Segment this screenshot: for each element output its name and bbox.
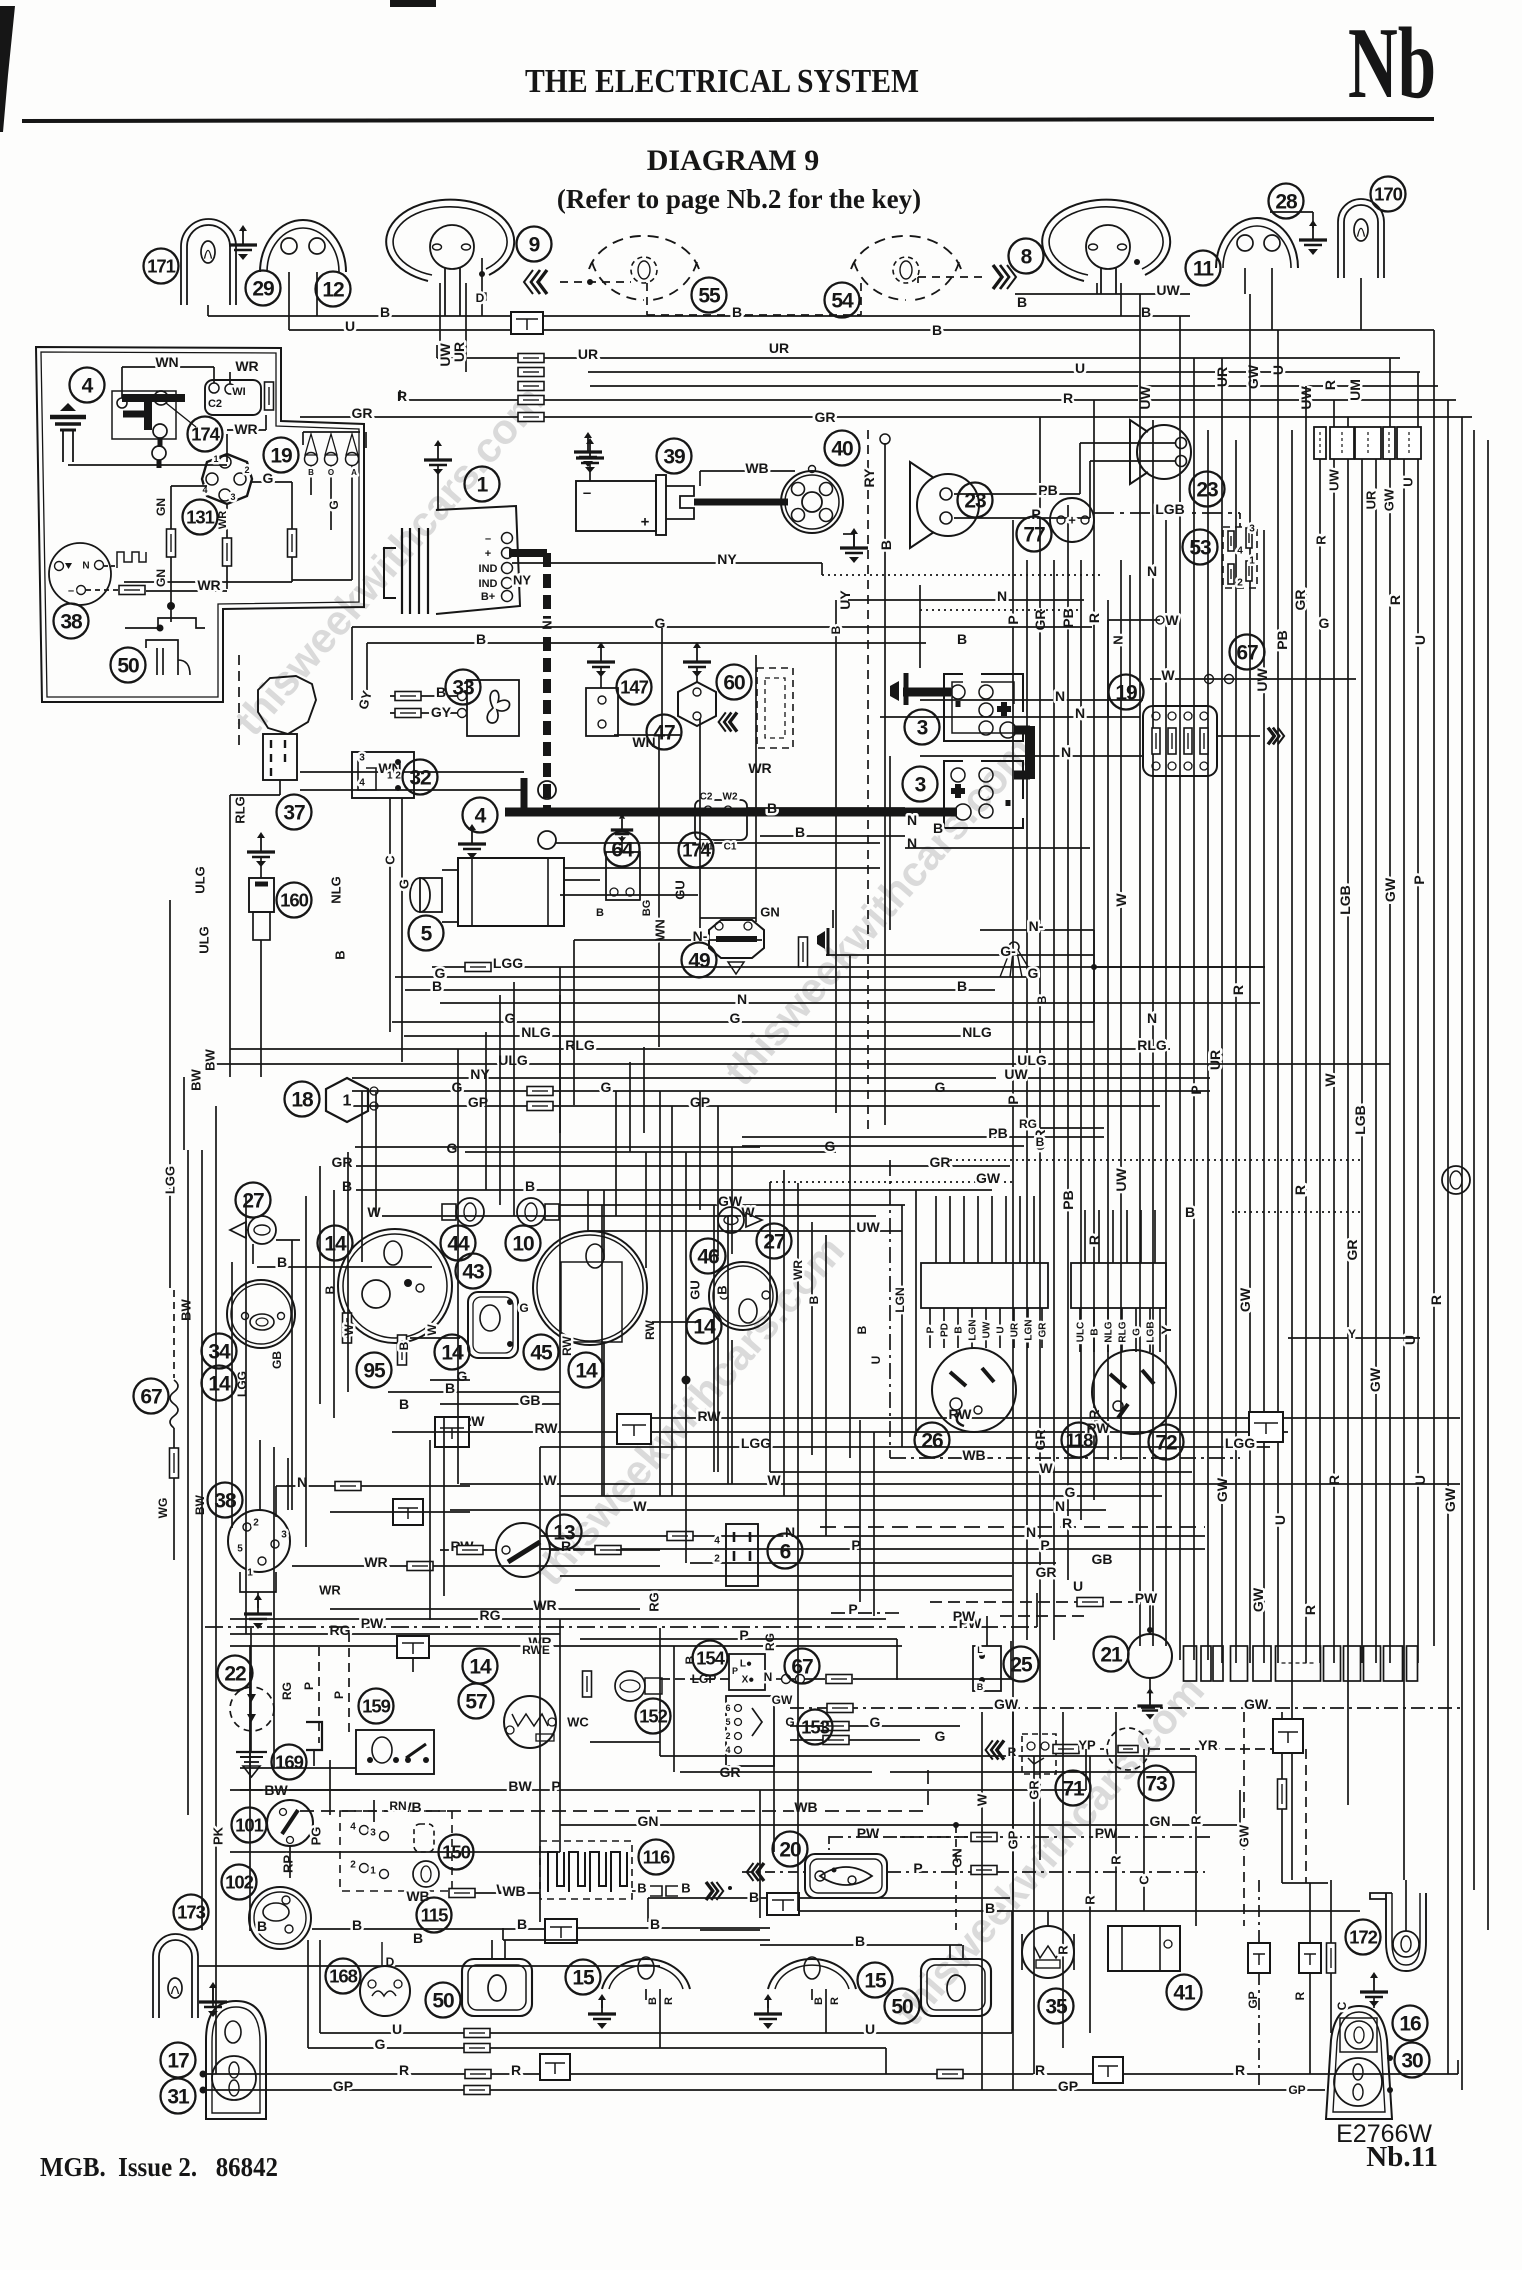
svg-text:118: 118 xyxy=(1066,1430,1094,1451)
svg-text:14: 14 xyxy=(693,1316,716,1339)
svg-text:67: 67 xyxy=(140,1386,162,1409)
svg-text:RWE: RWE xyxy=(522,1643,550,1657)
svg-text:N: N xyxy=(82,561,89,572)
svg-text:GW: GW xyxy=(1250,1587,1266,1612)
svg-text:WR: WR xyxy=(234,421,257,437)
svg-text:WB: WB xyxy=(502,1883,525,1899)
svg-text:153: 153 xyxy=(801,1717,830,1738)
svg-text:ULG: ULG xyxy=(193,866,208,893)
svg-text:2: 2 xyxy=(244,465,249,475)
svg-text:B: B xyxy=(957,631,967,647)
svg-text:G: G xyxy=(601,1079,612,1095)
svg-text:6: 6 xyxy=(725,1703,730,1713)
svg-text:GB: GB xyxy=(270,1351,284,1369)
svg-text:N: N xyxy=(785,1524,795,1540)
svg-text:11: 11 xyxy=(1193,258,1215,281)
svg-text:LGN: LGN xyxy=(968,1319,979,1340)
svg-text:R: R xyxy=(1293,1991,1307,2000)
svg-text:UM: UM xyxy=(1347,379,1363,401)
svg-text:LGG: LGG xyxy=(1225,1435,1255,1451)
svg-text:GW: GW xyxy=(1237,1287,1253,1312)
svg-text:38: 38 xyxy=(60,611,83,634)
svg-text:B: B xyxy=(413,1930,423,1946)
svg-text:WR: WR xyxy=(791,1260,805,1280)
svg-text:GR: GR xyxy=(1038,1322,1049,1338)
svg-text:P: P xyxy=(302,1682,316,1690)
svg-text:54: 54 xyxy=(831,290,854,313)
svg-text:B: B xyxy=(257,1918,267,1934)
svg-text:171: 171 xyxy=(147,256,176,277)
svg-text:41: 41 xyxy=(1173,1982,1196,2005)
svg-text:R: R xyxy=(663,1997,675,2005)
svg-text:N-: N- xyxy=(1029,918,1044,934)
svg-text:G: G xyxy=(935,1079,946,1095)
svg-text:B: B xyxy=(813,1997,825,2005)
svg-text:B: B xyxy=(352,1917,362,1933)
svg-text:3: 3 xyxy=(359,753,365,764)
svg-text:GW: GW xyxy=(994,1696,1019,1712)
svg-text:U: U xyxy=(1073,1578,1083,1594)
svg-text:102: 102 xyxy=(225,1872,254,1893)
svg-text:67: 67 xyxy=(1236,642,1258,665)
svg-text:150: 150 xyxy=(442,1842,471,1863)
svg-text:20: 20 xyxy=(779,1839,801,1862)
svg-text:55: 55 xyxy=(698,285,721,308)
svg-text:PB: PB xyxy=(1038,482,1057,498)
svg-text:A: A xyxy=(351,468,357,477)
svg-text:GW: GW xyxy=(1245,364,1261,389)
svg-text:U: U xyxy=(345,318,355,334)
svg-text:172: 172 xyxy=(1349,1927,1378,1948)
svg-text:LGG: LGG xyxy=(741,1435,771,1451)
svg-text:U: U xyxy=(1402,1335,1418,1345)
svg-text:DIAGRAM 9: DIAGRAM 9 xyxy=(647,144,820,177)
svg-text:PW: PW xyxy=(1135,1590,1158,1606)
svg-text:27: 27 xyxy=(242,1190,264,1213)
svg-text:23: 23 xyxy=(964,490,986,513)
svg-text:GW: GW xyxy=(1237,1824,1252,1847)
svg-text:UR: UR xyxy=(578,346,598,362)
svg-text:R: R xyxy=(1056,1945,1071,1955)
svg-text:30: 30 xyxy=(1401,2050,1423,2073)
svg-text:60: 60 xyxy=(723,672,745,695)
svg-text:RG: RG xyxy=(280,1682,294,1700)
svg-text:P: P xyxy=(913,1860,922,1876)
svg-text:Y: Y xyxy=(1348,1327,1356,1341)
svg-text:G: G xyxy=(730,1010,741,1026)
svg-text:P: P xyxy=(1411,875,1427,884)
svg-text:G: G xyxy=(327,500,341,509)
svg-text:B: B xyxy=(525,1178,535,1194)
svg-text:35: 35 xyxy=(1045,1996,1068,2019)
svg-text:32: 32 xyxy=(409,767,431,790)
svg-text:B: B xyxy=(445,1380,455,1396)
svg-text:B: B xyxy=(647,1997,659,2005)
svg-text:PG: PG xyxy=(309,1827,324,1846)
svg-text:GR: GR xyxy=(1292,590,1308,611)
svg-text:G: G xyxy=(1132,1328,1143,1336)
svg-text:PB: PB xyxy=(988,1125,1007,1141)
svg-text:44: 44 xyxy=(447,1233,470,1256)
svg-text:C: C xyxy=(1335,2001,1349,2010)
svg-text:YR: YR xyxy=(1198,1737,1217,1753)
svg-text:B: B xyxy=(932,322,942,338)
svg-text:N: N xyxy=(540,620,555,629)
svg-text:WR: WR xyxy=(748,760,771,776)
svg-text:R: R xyxy=(1322,380,1338,390)
svg-text:PB: PB xyxy=(1060,1190,1076,1209)
svg-text:PK: PK xyxy=(211,1826,226,1845)
svg-text:50: 50 xyxy=(432,1990,454,2013)
svg-text:UR: UR xyxy=(1010,1322,1021,1337)
svg-text:RY: RY xyxy=(861,468,877,488)
svg-text:W: W xyxy=(1113,893,1129,907)
svg-text:N: N xyxy=(907,812,917,828)
svg-text:C: C xyxy=(383,855,398,865)
svg-text:WR: WR xyxy=(364,1554,387,1570)
svg-text:LGN: LGN xyxy=(1024,1319,1035,1340)
svg-text:–: – xyxy=(485,533,491,545)
svg-text:P: P xyxy=(1005,615,1021,624)
svg-text:G: G xyxy=(785,1715,794,1729)
svg-text:GP: GP xyxy=(1058,2078,1078,2094)
svg-text:28: 28 xyxy=(1275,191,1298,214)
svg-text:WB: WB xyxy=(745,460,768,476)
svg-text:R: R xyxy=(1109,1855,1124,1865)
svg-text:G: G xyxy=(397,879,412,889)
svg-text:8: 8 xyxy=(1021,246,1033,269)
svg-text:R: R xyxy=(511,2062,521,2078)
svg-text:NLG: NLG xyxy=(962,1024,992,1040)
svg-text:LGN: LGN xyxy=(893,1287,907,1312)
svg-text:W: W xyxy=(1322,1073,1338,1087)
svg-text:NLG: NLG xyxy=(1104,1321,1115,1342)
svg-text:GP: GP xyxy=(333,2078,353,2094)
svg-text:IND: IND xyxy=(479,578,498,590)
svg-text:RLG: RLG xyxy=(565,1037,595,1053)
svg-text:UR: UR xyxy=(451,342,467,362)
svg-text:57: 57 xyxy=(465,1691,487,1714)
svg-text:5: 5 xyxy=(725,1717,730,1727)
svg-text:37: 37 xyxy=(283,802,305,825)
svg-text:WR: WR xyxy=(217,511,229,529)
svg-text:6: 6 xyxy=(780,1541,791,1564)
svg-text:RG: RG xyxy=(1019,1117,1037,1131)
svg-text:WB: WB xyxy=(962,1447,985,1463)
svg-text:ULG: ULG xyxy=(197,926,212,953)
svg-text:31: 31 xyxy=(167,2086,190,2109)
svg-text:R: R xyxy=(1302,1605,1318,1615)
svg-text:P: P xyxy=(1005,1095,1021,1104)
svg-text:2: 2 xyxy=(725,1731,730,1741)
svg-text:B: B xyxy=(333,950,348,959)
svg-text:B: B xyxy=(308,468,314,477)
svg-text:14: 14 xyxy=(208,1373,231,1396)
svg-text:WN: WN xyxy=(155,354,178,370)
svg-text:N: N xyxy=(1061,744,1071,760)
svg-text:50: 50 xyxy=(117,655,139,678)
svg-text:101: 101 xyxy=(235,1815,264,1836)
svg-text:RG: RG xyxy=(763,1633,777,1651)
svg-text:U: U xyxy=(865,2021,875,2037)
svg-text:5: 5 xyxy=(421,923,433,946)
svg-text:WB: WB xyxy=(406,1888,429,1904)
svg-text:PB: PB xyxy=(1060,608,1076,627)
svg-text:GW: GW xyxy=(976,1170,1001,1186)
svg-text:GR: GR xyxy=(930,1154,951,1170)
svg-text:RLG: RLG xyxy=(1137,1037,1167,1053)
svg-text:B: B xyxy=(933,820,943,836)
svg-text:E2766W: E2766W xyxy=(1336,2120,1432,2148)
svg-text:3: 3 xyxy=(917,717,928,740)
svg-text:U: U xyxy=(1401,477,1416,486)
svg-text:14: 14 xyxy=(469,1656,492,1679)
svg-text:B: B xyxy=(1036,1135,1045,1149)
svg-text:G: G xyxy=(452,1079,463,1095)
svg-text:152: 152 xyxy=(639,1706,668,1727)
svg-text:PB: PB xyxy=(1274,630,1290,649)
svg-text:G: G xyxy=(870,1714,881,1730)
svg-text:34: 34 xyxy=(208,1341,231,1364)
svg-text:R: R xyxy=(1189,1815,1204,1825)
svg-text:N: N xyxy=(1055,1498,1065,1514)
svg-text:RW: RW xyxy=(560,1335,574,1355)
svg-text:GW: GW xyxy=(772,1693,793,1707)
svg-text:B: B xyxy=(977,1682,984,1692)
svg-text:B: B xyxy=(1017,294,1027,310)
svg-text:LGB: LGB xyxy=(1146,1321,1157,1342)
svg-text:RN: RN xyxy=(389,1799,406,1813)
svg-text:1: 1 xyxy=(1249,556,1255,567)
svg-text:GU: GU xyxy=(688,1280,703,1300)
svg-text:N: N xyxy=(1055,688,1065,704)
svg-text:1: 1 xyxy=(343,1093,352,1110)
svg-text:14: 14 xyxy=(575,1360,598,1383)
svg-text:13: 13 xyxy=(553,1522,575,1545)
svg-text:4: 4 xyxy=(350,1822,356,1833)
svg-text:W: W xyxy=(425,1324,439,1336)
svg-text:+: + xyxy=(1068,513,1076,528)
svg-text:R: R xyxy=(1292,1185,1308,1195)
svg-text:2: 2 xyxy=(1237,578,1243,589)
svg-text:39: 39 xyxy=(663,446,685,469)
svg-text:W: W xyxy=(543,1472,557,1488)
svg-text:N: N xyxy=(1147,563,1157,579)
svg-text:WR: WR xyxy=(197,577,220,593)
svg-text:26: 26 xyxy=(921,1430,943,1453)
svg-text:W: W xyxy=(633,1498,647,1514)
svg-text:G: G xyxy=(519,1301,528,1315)
svg-text:P: P xyxy=(1040,1537,1049,1553)
svg-text:WR: WR xyxy=(235,358,258,374)
svg-text:17: 17 xyxy=(167,2050,189,2073)
svg-text:LGB: LGB xyxy=(1337,885,1353,915)
svg-text:5: 5 xyxy=(237,1544,243,1555)
svg-text:BW: BW xyxy=(179,1298,194,1320)
svg-text:B: B xyxy=(399,1396,409,1412)
svg-text:4: 4 xyxy=(359,778,365,789)
svg-text:50: 50 xyxy=(891,1996,913,2019)
svg-text:R: R xyxy=(1230,985,1246,995)
svg-text:GB: GB xyxy=(1092,1551,1113,1567)
svg-text:W: W xyxy=(1161,667,1175,683)
svg-text:25: 25 xyxy=(1010,1654,1033,1677)
svg-text:WR: WR xyxy=(533,1597,556,1613)
svg-text:19: 19 xyxy=(1115,682,1137,705)
svg-text:GN: GN xyxy=(1150,1813,1171,1829)
svg-text:WR: WR xyxy=(319,1583,341,1598)
svg-text:GW: GW xyxy=(1382,488,1397,511)
svg-text:R: R xyxy=(1063,390,1073,406)
svg-text:PW: PW xyxy=(953,1608,976,1624)
svg-text:4: 4 xyxy=(475,805,487,828)
svg-text:NY: NY xyxy=(513,573,531,588)
svg-text:15: 15 xyxy=(572,1967,595,1990)
svg-text:N: N xyxy=(1075,705,1085,721)
svg-text:71: 71 xyxy=(1062,1778,1085,1801)
svg-text:B: B xyxy=(878,540,894,550)
svg-text:B: B xyxy=(432,978,442,994)
svg-text:B: B xyxy=(1185,1204,1195,1220)
svg-text:PW: PW xyxy=(857,1825,880,1841)
svg-text:+: + xyxy=(641,513,650,530)
svg-text:R: R xyxy=(1083,1895,1098,1905)
svg-text:B: B xyxy=(732,304,742,320)
svg-text:16: 16 xyxy=(1399,2013,1421,2036)
svg-text:GN: GN xyxy=(638,1813,659,1829)
svg-text:27: 27 xyxy=(763,1231,785,1254)
svg-text:BW: BW xyxy=(193,1494,207,1515)
svg-text:160: 160 xyxy=(280,890,309,911)
svg-text:WN: WN xyxy=(653,919,668,941)
svg-text:BW: BW xyxy=(189,1068,204,1090)
svg-text:P: P xyxy=(739,1627,748,1643)
svg-text:B: B xyxy=(681,1881,690,1896)
svg-text:P: P xyxy=(926,1326,937,1333)
svg-text:19: 19 xyxy=(270,445,292,468)
svg-text:U: U xyxy=(1412,635,1428,645)
svg-text:3: 3 xyxy=(281,1530,287,1541)
svg-text:B: B xyxy=(1141,304,1151,320)
svg-text:B: B xyxy=(1090,1328,1101,1335)
svg-text:B: B xyxy=(323,1285,337,1294)
svg-text:GW: GW xyxy=(1382,877,1398,902)
svg-text:G: G xyxy=(1028,965,1039,981)
svg-text:14: 14 xyxy=(324,1233,347,1256)
svg-text:4: 4 xyxy=(82,375,94,398)
svg-text:95: 95 xyxy=(363,1360,386,1383)
svg-text:RP: RP xyxy=(281,1855,296,1873)
svg-text:43: 43 xyxy=(462,1261,484,1284)
svg-text:L: L xyxy=(977,1645,983,1655)
svg-text:N: N xyxy=(1111,635,1126,644)
svg-text:R: R xyxy=(1086,613,1102,623)
svg-text:BW: BW xyxy=(203,1048,218,1070)
svg-text:W: W xyxy=(1039,1460,1053,1476)
svg-text:R: R xyxy=(829,1997,841,2005)
svg-text:MGB. Issue 2. 86842: MGB. Issue 2. 86842 xyxy=(40,2152,278,2182)
svg-text:168: 168 xyxy=(329,1966,358,1987)
svg-text:R: R xyxy=(1035,2062,1045,2078)
svg-text:159: 159 xyxy=(362,1696,391,1717)
svg-text:RG: RG xyxy=(647,1592,662,1612)
svg-text:B: B xyxy=(985,1900,995,1916)
svg-text:N: N xyxy=(737,991,747,1007)
svg-text:33: 33 xyxy=(452,677,474,700)
svg-text:GR: GR xyxy=(1036,1564,1057,1580)
svg-text:B: B xyxy=(596,907,604,919)
svg-text:2: 2 xyxy=(714,1554,720,1565)
svg-text:3: 3 xyxy=(370,1828,376,1839)
svg-text:53: 53 xyxy=(1189,537,1211,560)
svg-text:LGG: LGG xyxy=(493,955,523,971)
svg-text:67: 67 xyxy=(791,1656,813,1679)
svg-text:IND: IND xyxy=(479,563,498,575)
svg-text:B+: B+ xyxy=(481,591,495,603)
svg-text:170: 170 xyxy=(1374,184,1403,205)
svg-text:WG: WG xyxy=(156,1498,170,1519)
svg-text:UR: UR xyxy=(769,340,789,356)
svg-text:64: 64 xyxy=(611,839,634,862)
svg-text:LGG: LGG xyxy=(163,1166,178,1194)
svg-text:YP: YP xyxy=(1078,1738,1096,1753)
svg-text:10: 10 xyxy=(512,1233,534,1256)
svg-text:W: W xyxy=(342,1324,356,1336)
svg-text:U: U xyxy=(392,2021,402,2037)
svg-text:147: 147 xyxy=(620,677,649,698)
svg-text:WI: WI xyxy=(232,386,245,398)
svg-text:PD: PD xyxy=(940,1323,951,1337)
svg-text:21: 21 xyxy=(1100,1644,1123,1667)
svg-text:GR: GR xyxy=(1027,1780,1042,1800)
svg-text:C: C xyxy=(1137,1875,1152,1885)
svg-text:R: R xyxy=(1314,535,1329,545)
svg-text:77: 77 xyxy=(1023,524,1045,547)
svg-text:4: 4 xyxy=(714,1536,720,1547)
svg-text:29: 29 xyxy=(252,278,274,301)
svg-text:C2: C2 xyxy=(208,398,222,410)
svg-text:2: 2 xyxy=(253,1518,259,1529)
svg-text:R: R xyxy=(1062,1515,1072,1531)
svg-text:NY: NY xyxy=(470,1066,490,1082)
svg-text:W2: W2 xyxy=(723,792,738,803)
svg-text:G-: G- xyxy=(1000,943,1016,959)
svg-text:B: B xyxy=(342,1178,352,1194)
svg-text:1: 1 xyxy=(247,1568,253,1579)
svg-text:B: B xyxy=(957,978,967,994)
svg-text:WN: WN xyxy=(632,734,655,750)
svg-text:GP: GP xyxy=(1288,2083,1305,2097)
svg-text:P: P xyxy=(1188,1085,1204,1094)
svg-text:46: 46 xyxy=(697,1246,719,1269)
svg-text:–: – xyxy=(68,585,74,597)
svg-text:1: 1 xyxy=(370,1866,376,1877)
svg-text:12: 12 xyxy=(322,279,344,302)
svg-text:B: B xyxy=(380,304,390,320)
svg-text:UW: UW xyxy=(1004,1066,1028,1082)
svg-text:W: W xyxy=(975,1793,990,1806)
svg-text:GB: GB xyxy=(520,1392,541,1408)
svg-text:WC: WC xyxy=(567,1715,589,1730)
svg-text:45: 45 xyxy=(530,1342,553,1365)
svg-text:G: G xyxy=(447,1140,458,1156)
svg-text:ULC: ULC xyxy=(1076,1322,1087,1343)
svg-text:40: 40 xyxy=(831,438,853,461)
svg-text:N: N xyxy=(1147,1010,1157,1026)
svg-text:B: B xyxy=(397,1341,411,1350)
svg-text:49: 49 xyxy=(688,950,710,973)
svg-text:1 2: 1 2 xyxy=(387,771,401,782)
